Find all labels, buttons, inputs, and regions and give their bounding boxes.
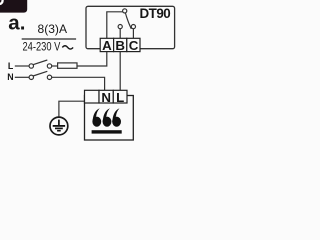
L switch right contact (47, 64, 51, 68)
N wire to boiler N (52, 77, 105, 90)
pivot contact circle (123, 9, 127, 13)
L switch left contact (29, 64, 33, 68)
N wire to switch (15, 76, 29, 78)
flame 3 (112, 108, 121, 127)
stem C (132, 29, 134, 39)
partial white digit in badge (0, 0, 3, 4)
wire fuse to A (77, 52, 107, 66)
earth symbol bar mid (55, 127, 63, 129)
wire B to boiler L (119, 52, 121, 91)
AC tilde symbol (62, 46, 73, 49)
svg-text:24-230 V: 24-230 V (23, 40, 61, 54)
svg-text:L: L (116, 90, 124, 105)
step badge (black, cropped top-left) (0, 0, 27, 13)
earth symbol bar small (57, 130, 61, 132)
earth symbol bar wide (53, 125, 65, 127)
terminal C box (127, 38, 140, 51)
svg-text:A: A (102, 38, 112, 53)
stem B (119, 29, 121, 39)
svg-text:B: B (115, 38, 125, 53)
earth symbol circle (50, 117, 68, 135)
contact over B (118, 25, 122, 29)
terminal B box (114, 38, 127, 51)
L wire to switch (15, 65, 29, 67)
N switch blade (33, 71, 47, 76)
L switch blade (33, 60, 47, 65)
N switch right contact (47, 75, 51, 79)
svg-text:8(3)A: 8(3)A (38, 22, 68, 36)
contact over C (131, 25, 135, 29)
earth symbol stem (58, 120, 60, 126)
relay blade (125, 13, 131, 29)
svg-text:N: N (101, 90, 111, 105)
N switch left contact (29, 75, 33, 79)
svg-text:DT90: DT90 (140, 6, 171, 21)
boiler N terminal box (99, 90, 113, 103)
fuse F1 (58, 63, 77, 68)
svg-text:C: C (129, 38, 139, 53)
svg-text:a.: a. (8, 11, 25, 34)
wire pivot feed (A to pivot) (107, 12, 123, 39)
svg-text:L: L (8, 61, 14, 71)
svg-text:N: N (7, 72, 13, 82)
boiler box (85, 96, 134, 141)
boiler earth terminal box (85, 90, 100, 103)
flame 1 (92, 108, 101, 127)
terminal A box (100, 38, 113, 51)
boiler L terminal box (113, 90, 127, 103)
earth wire (59, 101, 85, 117)
burner bar (92, 130, 122, 133)
fraction bar (22, 38, 76, 40)
wire switch to fuse (52, 65, 58, 67)
DT90 thermostat box U1 (86, 6, 175, 48)
flame 2 (103, 108, 112, 127)
